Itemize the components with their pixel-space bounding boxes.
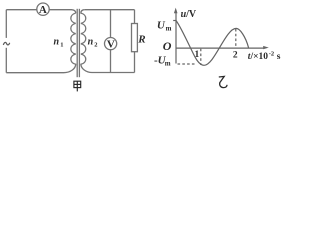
svg-text:n: n xyxy=(54,36,60,47)
svg-text:1: 1 xyxy=(195,50,200,60)
svg-text:1: 1 xyxy=(60,42,63,49)
svg-text:u/V: u/V xyxy=(181,9,197,20)
svg-text:V: V xyxy=(107,39,115,51)
svg-text:m: m xyxy=(165,59,171,67)
svg-text:m: m xyxy=(166,25,172,33)
svg-text:2: 2 xyxy=(233,51,238,61)
svg-text:R: R xyxy=(137,33,145,45)
svg-text:A: A xyxy=(39,4,47,16)
svg-text:O: O xyxy=(163,39,172,53)
svg-text:2: 2 xyxy=(94,42,97,49)
svg-text:U: U xyxy=(157,20,166,32)
svg-text:-2: -2 xyxy=(269,51,274,58)
svg-text:n: n xyxy=(88,36,94,47)
svg-text:s: s xyxy=(277,52,281,62)
svg-text:t/×10: t/×10 xyxy=(248,52,268,62)
